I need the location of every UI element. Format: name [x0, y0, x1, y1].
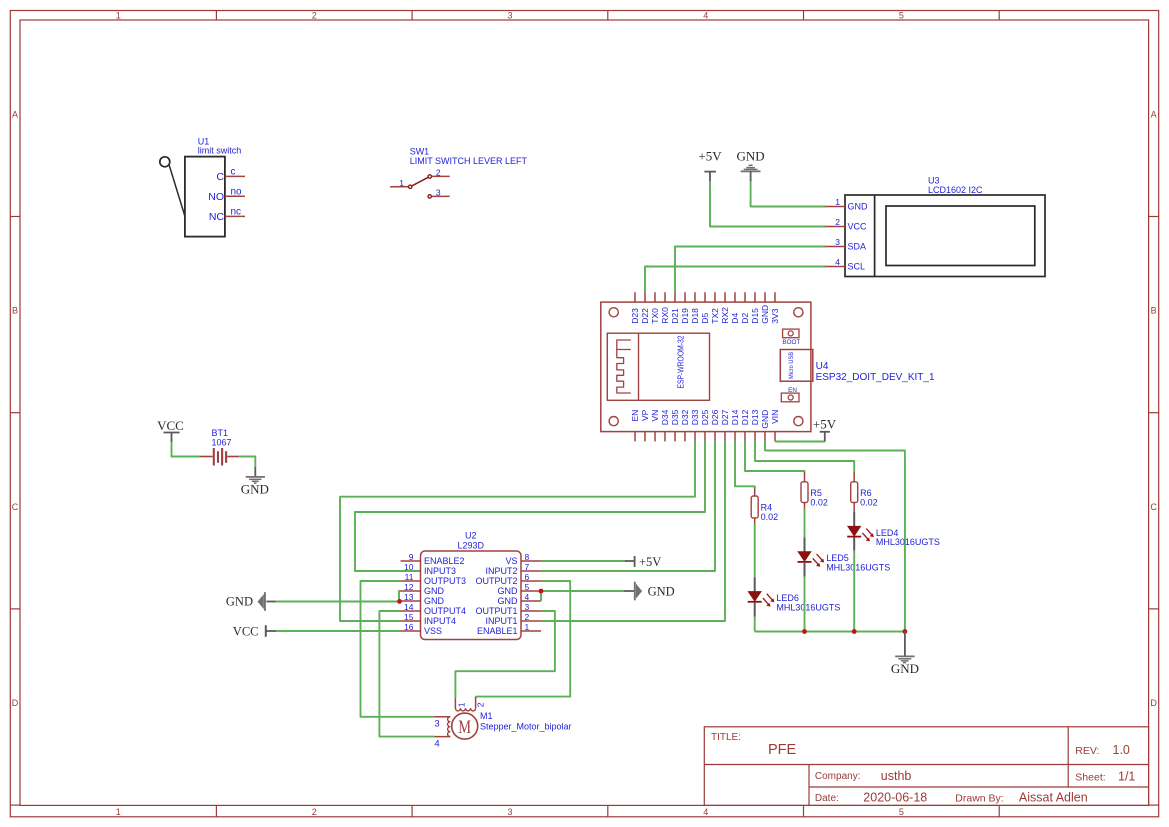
- svg-text:OUTPUT1: OUTPUT1: [475, 606, 517, 616]
- wire D26 to INPUT2: [541, 441, 715, 571]
- svg-text:TITLE:: TITLE:: [711, 732, 741, 743]
- pin 3 OUTPUT1: [475, 602, 541, 616]
- LCD module U3 LCD1602 I2C: [826, 176, 1046, 277]
- svg-text:EN: EN: [630, 410, 640, 422]
- svg-text:15: 15: [404, 612, 414, 622]
- svg-text:EN: EN: [788, 387, 797, 394]
- svg-text:nc: nc: [231, 207, 242, 218]
- svg-text:2: 2: [835, 217, 840, 227]
- pin D18 (top): [690, 292, 700, 324]
- pin 11 OUTPUT3: [401, 572, 467, 586]
- svg-text:limit switch: limit switch: [198, 146, 242, 156]
- svg-text:D: D: [12, 698, 19, 708]
- svg-text:MHL3016UGTS: MHL3016UGTS: [776, 602, 840, 612]
- limit switch U1: [160, 137, 245, 237]
- junction at pin 13 GND: [397, 599, 402, 604]
- svg-text:1.0: 1.0: [1113, 743, 1130, 757]
- pin D32 (bottom): [680, 409, 690, 441]
- pin 14 OUTPUT4: [401, 602, 467, 616]
- pin D4 (top): [730, 292, 740, 324]
- svg-text:D13: D13: [750, 409, 760, 425]
- pin 9 ENABLE2: [401, 552, 465, 566]
- svg-text:PFE: PFE: [768, 742, 797, 758]
- pin D19 (top): [680, 292, 690, 324]
- svg-text:C: C: [12, 502, 19, 512]
- wire pin5/pin4 GND to GND flag: [541, 591, 624, 601]
- svg-text:3: 3: [525, 602, 530, 612]
- svg-text:1/1: 1/1: [1118, 770, 1135, 784]
- svg-text:VCC: VCC: [233, 624, 259, 638]
- svg-text:D21: D21: [670, 308, 680, 324]
- pin D2 (top): [740, 292, 750, 324]
- wire LED4 to ground bus: [853, 551, 855, 632]
- svg-text:VS: VS: [505, 556, 517, 566]
- pin D23 (top): [630, 292, 640, 324]
- pin 1 ENABLE1: [477, 622, 541, 636]
- svg-text:SCL: SCL: [848, 262, 866, 272]
- svg-text:11: 11: [405, 572, 414, 582]
- svg-text:3: 3: [507, 10, 512, 20]
- power flag VCC (battery): [157, 418, 184, 442]
- svg-text:MHL3016UGTS: MHL3016UGTS: [826, 563, 890, 573]
- svg-text:INPUT3: INPUT3: [424, 566, 456, 576]
- svg-text:2: 2: [476, 702, 486, 707]
- svg-text:D26: D26: [710, 409, 720, 425]
- svg-text:GND: GND: [424, 586, 445, 596]
- pin 16 VSS: [401, 622, 443, 636]
- ground GND (LCD GND): [737, 149, 765, 182]
- svg-text:4: 4: [703, 10, 708, 20]
- svg-text:12: 12: [404, 582, 414, 592]
- svg-text:VCC: VCC: [848, 222, 868, 232]
- svg-text:M: M: [458, 718, 471, 738]
- wire D33 to INPUT4: [340, 441, 695, 621]
- pin 3 SDA: [826, 237, 867, 252]
- pin RX0 (top): [660, 292, 670, 324]
- svg-text:6: 6: [525, 572, 530, 582]
- svg-text:1067: 1067: [212, 438, 232, 448]
- svg-text:BOOT: BOOT: [782, 339, 800, 346]
- svg-text:D5: D5: [700, 313, 710, 324]
- svg-text:OUTPUT2: OUTPUT2: [475, 576, 517, 586]
- svg-text:TX0: TX0: [650, 308, 660, 324]
- svg-text:0.02: 0.02: [860, 497, 878, 507]
- title block: [704, 727, 1148, 806]
- pin D15 (top): [750, 292, 760, 324]
- wire OUTPUT1 to motor pin 1: [455, 611, 555, 698]
- LED LED6 MHL3016UGTS: [748, 577, 841, 616]
- wire VCC to BT1: [172, 442, 200, 456]
- power flag +5V (VS): [625, 555, 661, 569]
- pin 2 INPUT1: [485, 612, 541, 626]
- svg-text:C: C: [1150, 502, 1157, 512]
- svg-text:2020-06-18: 2020-06-18: [863, 791, 927, 805]
- pin 4 GND: [498, 592, 542, 606]
- svg-text:Drawn By:: Drawn By:: [955, 793, 1003, 805]
- svg-text:GND: GND: [226, 595, 253, 609]
- pin VN (bottom): [650, 410, 660, 442]
- svg-text:+5V: +5V: [639, 555, 661, 569]
- pin D26 (bottom): [710, 409, 720, 441]
- wire VIN to +5V: [775, 441, 825, 443]
- svg-text:Aissat Adlen: Aissat Adlen: [1019, 791, 1088, 805]
- pin EN (bottom): [630, 410, 640, 442]
- wire VS to +5V: [541, 560, 626, 562]
- pin D33 (bottom): [690, 409, 700, 441]
- svg-text:1: 1: [116, 10, 121, 20]
- svg-text:D19: D19: [680, 308, 690, 324]
- svg-text:0.02: 0.02: [810, 497, 828, 507]
- svg-text:D25: D25: [700, 409, 710, 425]
- battery BT1 1067: [200, 428, 240, 466]
- wire VSS to VCC: [276, 630, 401, 632]
- svg-text:7: 7: [525, 562, 530, 572]
- pin TX0 (top): [650, 292, 660, 324]
- wire SCL: LCD pin4 to ESP32 D22: [645, 267, 826, 293]
- svg-text:INPUT2: INPUT2: [485, 566, 517, 576]
- pin D12 (bottom): [740, 409, 750, 441]
- svg-text:3: 3: [835, 237, 840, 247]
- svg-text:OUTPUT3: OUTPUT3: [424, 576, 466, 586]
- svg-text:ENABLE1: ENABLE1: [477, 626, 518, 636]
- svg-text:D14: D14: [730, 409, 740, 425]
- svg-text:D27: D27: [720, 409, 730, 425]
- svg-text:+5V: +5V: [813, 416, 837, 431]
- pin VIN (bottom): [770, 410, 780, 442]
- svg-text:Micro USB: Micro USB: [789, 352, 795, 379]
- pin 6 OUTPUT2: [475, 572, 541, 586]
- ground GND (battery): [241, 467, 269, 497]
- wire GND to LCD pin1 GND: [751, 181, 826, 207]
- svg-text:D32: D32: [680, 409, 690, 425]
- svg-text:D: D: [1150, 698, 1157, 708]
- svg-text:GND: GND: [648, 585, 675, 599]
- svg-text:MHL3016UGTS: MHL3016UGTS: [876, 537, 940, 547]
- svg-text:ESP-WROOM-32: ESP-WROOM-32: [677, 336, 686, 389]
- power flag +5V (LCD VCC): [698, 149, 722, 182]
- power flag +5V (VIN): [813, 416, 837, 441]
- svg-text:GND: GND: [498, 586, 519, 596]
- svg-text:D23: D23: [630, 308, 640, 324]
- pin D25 (bottom): [700, 409, 710, 441]
- svg-text:4: 4: [434, 739, 439, 750]
- junction LED5 bus: [802, 629, 807, 634]
- ESP-WROOM-32 sub-module with antenna: [607, 333, 709, 400]
- svg-text:c: c: [231, 167, 236, 178]
- wire pin12/pin13 GND to GND flag: [276, 591, 401, 602]
- svg-text:8: 8: [525, 552, 530, 562]
- svg-text:VIN: VIN: [770, 410, 780, 424]
- ground flag GND (U2 right): [624, 582, 675, 601]
- svg-text:D4: D4: [730, 313, 740, 324]
- svg-text:GND: GND: [760, 305, 770, 324]
- svg-text:U4: U4: [816, 361, 829, 372]
- pin GND (bottom): [760, 410, 770, 442]
- pin TX2 (top): [710, 292, 720, 324]
- LED LED5 MHL3016UGTS: [798, 537, 891, 576]
- pin D35 (bottom): [670, 409, 680, 441]
- svg-text:D18: D18: [690, 308, 700, 324]
- svg-text:D2: D2: [740, 313, 750, 324]
- svg-text:5: 5: [899, 10, 904, 20]
- svg-text:GND: GND: [424, 596, 445, 606]
- wire LED5 to ground bus: [804, 577, 806, 632]
- svg-text:5: 5: [899, 807, 904, 817]
- svg-text:NC: NC: [209, 211, 225, 223]
- svg-text:SDA: SDA: [848, 242, 867, 252]
- svg-text:Sheet:: Sheet:: [1075, 772, 1105, 784]
- svg-text:VN: VN: [650, 410, 660, 422]
- pin GND (top): [760, 292, 770, 324]
- svg-text:SW1: SW1: [410, 147, 430, 157]
- svg-text:NO: NO: [208, 191, 224, 203]
- svg-text:LIMIT SWITCH LEVER LEFT: LIMIT SWITCH LEVER LEFT: [410, 156, 528, 166]
- svg-text:3V3: 3V3: [770, 308, 780, 323]
- switch SW1: [390, 147, 527, 199]
- svg-text:GND: GND: [241, 482, 269, 497]
- ground flag GND (U2 left): [226, 592, 276, 611]
- svg-text:M1: M1: [480, 711, 493, 721]
- svg-text:B: B: [12, 306, 18, 316]
- svg-text:Company:: Company:: [815, 771, 861, 782]
- svg-text:D34: D34: [660, 409, 670, 425]
- svg-text:2: 2: [312, 10, 317, 20]
- svg-text:2: 2: [525, 612, 530, 622]
- pin D27 (bottom): [720, 409, 730, 441]
- svg-text:VP: VP: [640, 409, 650, 421]
- pin 13 GND: [401, 592, 445, 606]
- wire OUTPUT2 to motor pin 2: [476, 581, 571, 697]
- wire D27 to INPUT1: [541, 441, 725, 621]
- svg-text:L293D: L293D: [458, 541, 485, 551]
- svg-text:GND: GND: [498, 596, 519, 606]
- LED LED4 MHL3016UGTS: [847, 512, 940, 551]
- svg-text:U2: U2: [465, 531, 477, 541]
- wire OUTPUT3 to motor pin 3: [361, 581, 435, 717]
- driver U2 L293D: [401, 531, 542, 640]
- svg-text:BT1: BT1: [212, 428, 229, 438]
- svg-text:TX2: TX2: [710, 308, 720, 324]
- svg-text:U3: U3: [928, 176, 940, 186]
- svg-text:D12: D12: [740, 409, 750, 425]
- wire +5V to LCD pin2 VCC: [710, 181, 826, 227]
- svg-text:Date:: Date:: [815, 793, 839, 804]
- wire D13 to R6: [755, 441, 854, 473]
- svg-text:3: 3: [436, 188, 441, 198]
- wire BT1 to GND: [239, 457, 255, 468]
- junction at pin 5 GND: [539, 589, 544, 594]
- svg-text:1: 1: [525, 622, 530, 632]
- svg-text:4: 4: [525, 592, 530, 602]
- svg-text:3: 3: [434, 719, 439, 730]
- svg-text:INPUT4: INPUT4: [424, 616, 456, 626]
- junction GND bus corner: [903, 629, 908, 634]
- ESP32 module U4 ESP32_DOIT_DEV_KIT_1: [601, 292, 935, 441]
- wire ground bus: [755, 631, 905, 633]
- svg-text:GND: GND: [737, 149, 765, 164]
- resistor R6 0.02: [851, 472, 878, 512]
- svg-text:1: 1: [116, 807, 121, 817]
- svg-text:16: 16: [404, 622, 414, 632]
- svg-text:REV:: REV:: [1075, 745, 1099, 757]
- svg-text:+5V: +5V: [698, 149, 722, 164]
- pin D14 (bottom): [730, 409, 740, 441]
- wire OUTPUT4 to motor pin 4: [379, 611, 434, 737]
- pin 8 VS: [505, 552, 541, 566]
- svg-text:D35: D35: [670, 409, 680, 425]
- pin VP (bottom): [640, 409, 650, 441]
- pin 4 SCL: [826, 257, 866, 272]
- svg-text:OUTPUT4: OUTPUT4: [424, 606, 466, 616]
- svg-text:13: 13: [404, 592, 414, 602]
- pin 5 GND: [498, 582, 542, 596]
- wire ESP32 GND to ground bus: [765, 441, 905, 632]
- svg-text:INPUT1: INPUT1: [485, 616, 517, 626]
- pin D13 (bottom): [750, 409, 760, 441]
- svg-text:D33: D33: [690, 409, 700, 425]
- svg-text:D22: D22: [640, 308, 650, 324]
- junction LED4 bus: [852, 629, 857, 634]
- svg-text:B: B: [1151, 306, 1157, 316]
- svg-text:LCD1602 I2C: LCD1602 I2C: [928, 185, 983, 195]
- svg-text:2: 2: [436, 168, 441, 178]
- svg-text:RX0: RX0: [660, 307, 670, 324]
- wire LED6 to ground bus: [754, 617, 756, 632]
- pin D21 (top): [670, 292, 680, 324]
- svg-text:Stepper_Motor_bipolar: Stepper_Motor_bipolar: [480, 722, 572, 732]
- svg-text:14: 14: [404, 602, 414, 612]
- pin RX2 (top): [720, 292, 730, 324]
- svg-text:9: 9: [409, 552, 414, 562]
- resistor R5 0.02: [801, 472, 828, 509]
- svg-text:no: no: [231, 187, 243, 198]
- svg-text:A: A: [1151, 109, 1157, 119]
- svg-text:A: A: [12, 109, 18, 119]
- svg-text:4: 4: [703, 807, 708, 817]
- svg-text:RX2: RX2: [720, 307, 730, 324]
- wire D14 to R4: [735, 441, 755, 488]
- svg-text:1: 1: [399, 178, 404, 188]
- pin D22 (top): [640, 292, 650, 324]
- pin 2 VCC: [826, 217, 868, 232]
- svg-text:2: 2: [312, 807, 317, 817]
- svg-text:ESP32_DOIT_DEV_KIT_1: ESP32_DOIT_DEV_KIT_1: [816, 372, 935, 383]
- ground GND (bus): [891, 632, 919, 677]
- wire SDA: LCD pin3 to ESP32 D21: [675, 247, 826, 293]
- pin D34 (bottom): [660, 409, 670, 441]
- svg-text:C: C: [216, 171, 224, 183]
- svg-text:VCC: VCC: [157, 418, 184, 433]
- svg-text:GND: GND: [891, 661, 919, 676]
- svg-text:4: 4: [835, 257, 840, 267]
- svg-text:1: 1: [835, 197, 840, 207]
- svg-text:0.02: 0.02: [761, 512, 779, 522]
- wire D12 to R5: [745, 441, 805, 473]
- svg-text:usthb: usthb: [881, 769, 912, 783]
- pin 3V3 (top): [770, 292, 780, 324]
- wire R4 to LED6: [754, 524, 756, 577]
- svg-text:5: 5: [525, 582, 530, 592]
- pin 15 INPUT4: [401, 612, 457, 626]
- svg-text:VSS: VSS: [424, 626, 442, 636]
- pin 7 INPUT2: [485, 562, 541, 576]
- power flag VCC (VSS): [233, 624, 276, 638]
- pin 1 GND: [826, 197, 869, 212]
- pin 10 INPUT3: [401, 562, 457, 576]
- wire R5 to LED5: [804, 509, 806, 538]
- svg-text:3: 3: [507, 807, 512, 817]
- pin D5 (top): [700, 292, 710, 324]
- wire D25 to INPUT3: [355, 441, 705, 571]
- Micro USB connector: [780, 350, 813, 382]
- stepper motor M1: [434, 697, 571, 750]
- svg-text:D15: D15: [750, 308, 760, 324]
- svg-text:GND: GND: [760, 410, 770, 429]
- svg-text:GND: GND: [848, 202, 869, 212]
- svg-text:1: 1: [456, 702, 466, 707]
- button BOOT: [782, 329, 800, 346]
- svg-text:ENABLE2: ENABLE2: [424, 556, 465, 566]
- button EN: [781, 387, 799, 402]
- resistor R4 0.02: [751, 488, 778, 525]
- pin 12 GND: [401, 582, 445, 596]
